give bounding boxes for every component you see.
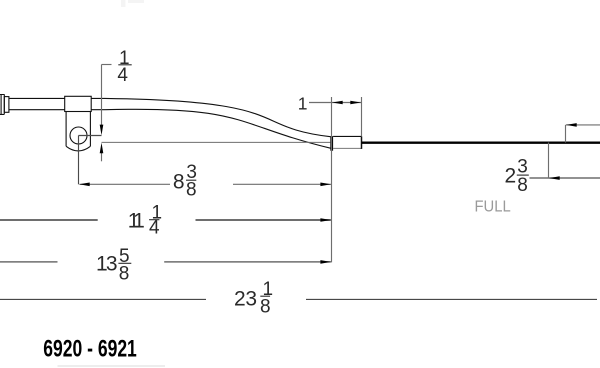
svg-text:8: 8 bbox=[119, 263, 130, 284]
dim 23-1/8 line bbox=[0, 298, 597, 300]
conduit top S-curve bbox=[91, 98, 330, 136]
svg-text:2: 2 bbox=[505, 164, 517, 187]
fraction bar 5/8 bbox=[118, 262, 131, 264]
conduit bottom S-curve bbox=[91, 109, 330, 148]
clamp top block bbox=[65, 96, 92, 111]
extension line at conduit end bbox=[331, 97, 333, 262]
clamp body sides bbox=[66, 112, 90, 147]
right upper dim line bbox=[566, 124, 600, 126]
dim 2-3/8 line bbox=[530, 177, 600, 179]
arrow right (8-3/8 at end) bbox=[320, 183, 331, 187]
dim 8-3/8 line bbox=[80, 183, 331, 185]
arrow up (1/4 lower) bbox=[100, 143, 104, 154]
dim 1/4 bracket tick bbox=[102, 64, 112, 66]
svg-text:FULL: FULL bbox=[475, 198, 512, 215]
dim 2-3/8 extension line bbox=[548, 143, 550, 179]
rod lower line (left of clamp) bbox=[9, 109, 65, 111]
svg-text:4: 4 bbox=[117, 65, 128, 86]
svg-text:4: 4 bbox=[149, 218, 160, 239]
leader from hole center bbox=[79, 135, 102, 137]
svg-text:8: 8 bbox=[260, 296, 271, 317]
arrow left (right upper dim) bbox=[566, 123, 577, 127]
clamp rounded bottom bbox=[66, 146, 90, 151]
arrow right (13-5/8) bbox=[320, 260, 331, 264]
svg-text:8: 8 bbox=[517, 175, 528, 196]
dim 1/4 lower tail bbox=[101, 152, 103, 161]
arrow right (dim 1) bbox=[350, 101, 361, 105]
svg-text:13: 13 bbox=[96, 253, 118, 276]
fraction bar 1/8 bbox=[260, 295, 270, 297]
right upper extension line bbox=[565, 125, 567, 143]
extension line below hole center bbox=[78, 136, 80, 185]
fraction bar 3/8 bbox=[186, 179, 196, 181]
arrow left (2-3/8) bbox=[549, 176, 560, 180]
arrow left (dim 1) bbox=[332, 101, 343, 105]
dim 11-1/4 line bbox=[0, 219, 331, 221]
rod upper line (left of clamp) bbox=[9, 97, 65, 99]
arrowheads bbox=[79, 101, 577, 264]
clamp hole circle bbox=[70, 127, 87, 144]
crimp sleeve rectangle bbox=[333, 136, 361, 149]
svg-text:1: 1 bbox=[298, 93, 308, 113]
fraction bar 1/4 bbox=[118, 64, 131, 66]
fraction bar 1/4 bbox=[149, 219, 159, 221]
faint cropped marks top edge bbox=[121, 0, 144, 7]
arrow left (8-3/8 at hole) bbox=[79, 183, 90, 187]
svg-text:11: 11 bbox=[128, 209, 145, 232]
extension line at sleeve right bbox=[361, 97, 363, 136]
fraction bar 3/8 bbox=[517, 174, 529, 176]
svg-text:8: 8 bbox=[173, 170, 185, 193]
arrow down (1/4 upper) bbox=[100, 125, 104, 136]
dim 1/4 vertical line bbox=[101, 65, 103, 128]
faint cropped line bottom edge bbox=[58, 365, 166, 367]
rod collar bbox=[4, 97, 9, 113]
svg-text:23: 23 bbox=[234, 288, 257, 311]
arrow right (11-1/4) bbox=[320, 218, 331, 222]
dim 13-5/8 line bbox=[0, 261, 331, 263]
rod left end piece (cut off at image edge) bbox=[0, 94, 4, 114]
svg-text:6920 - 6921: 6920 - 6921 bbox=[43, 336, 137, 363]
conduit end cap thick bar bbox=[330, 136, 333, 151]
cable centerline reference (straight gray) bbox=[102, 141, 331, 143]
dim 1 line bbox=[309, 102, 362, 104]
inner cable thick line bbox=[362, 142, 600, 144]
svg-text:8: 8 bbox=[186, 180, 197, 201]
text 1/4 bbox=[117, 48, 129, 86]
